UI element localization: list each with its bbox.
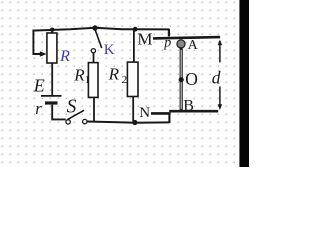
resistor R1 body [88, 63, 98, 98]
rheostat wiper arrow [40, 51, 47, 57]
plate A (top plate M) [153, 37, 220, 38]
junction node (R2 bottom) [132, 120, 137, 125]
point O marker [179, 77, 184, 82]
svg-text:R: R [73, 66, 85, 85]
svg-text:O: O [185, 69, 198, 89]
wire bottom bus [87, 122, 169, 123]
battery E short plate [45, 101, 58, 104]
switch K blade [95, 29, 102, 48]
switch S blade [67, 110, 84, 120]
svg-text:p: p [163, 35, 171, 50]
svg-text:S: S [67, 96, 77, 117]
svg-text:A: A [188, 38, 199, 53]
rheostat top lead [51, 30, 53, 33]
battery bottom lead [52, 105, 65, 120]
wire riser to plate B [168, 113, 170, 123]
svg-text:R: R [108, 65, 120, 84]
dimension arrow upper [219, 41, 221, 63]
svg-text:M: M [137, 29, 152, 48]
wire R2 bottom [132, 97, 134, 122]
scan artifact bar [239, 0, 249, 167]
switch K contact [91, 49, 95, 53]
wire K to R1 [93, 53, 95, 63]
wire left branch to wiper [33, 30, 40, 54]
dimension arrow lower [219, 87, 221, 109]
plate B (bottom plate N) [151, 112, 171, 115]
battery E long plate [41, 95, 62, 97]
svg-text:N: N [139, 105, 150, 121]
svg-text:2: 2 [122, 74, 128, 86]
svg-text:r: r [35, 99, 42, 118]
wire stub top plate [168, 29, 170, 36]
resistor R2 body [127, 62, 138, 96]
wire R1 bottom [93, 97, 95, 121]
junction node (K top) [92, 25, 97, 30]
charged ball at A [177, 40, 185, 48]
wire R2 top lead [133, 29, 135, 62]
rheostat R body [47, 33, 57, 63]
suspension string [180, 48, 183, 110]
svg-text:R: R [59, 48, 70, 65]
switch S left contact [66, 120, 70, 124]
wire top bus [32, 28, 169, 31]
svg-text:d: d [212, 67, 221, 87]
junction node (R2 top) [133, 27, 138, 32]
junction node (R top) [50, 28, 54, 32]
svg-text:1: 1 [85, 75, 90, 86]
switch S right contact [83, 119, 87, 123]
wire R bottom to battery [51, 63, 53, 95]
svg-text:E: E [33, 76, 45, 96]
svg-text:K: K [104, 42, 115, 58]
